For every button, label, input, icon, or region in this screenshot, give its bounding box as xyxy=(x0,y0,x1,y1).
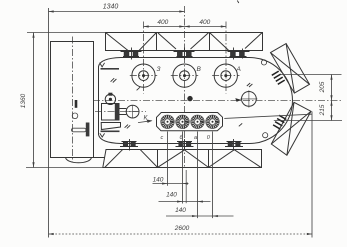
svg-text:А: А xyxy=(236,66,241,73)
svg-text:З: З xyxy=(157,66,161,73)
svg-text:1360: 1360 xyxy=(20,93,27,108)
svg-text:1340: 1340 xyxy=(103,4,119,11)
svg-text:2600: 2600 xyxy=(174,225,190,232)
svg-text:а: а xyxy=(194,135,197,141)
svg-text:400: 400 xyxy=(157,19,168,26)
svg-text:с: с xyxy=(161,135,164,141)
svg-text:215: 215 xyxy=(319,104,326,116)
svg-text:140: 140 xyxy=(166,191,177,198)
svg-text:400: 400 xyxy=(199,19,210,26)
svg-text:В: В xyxy=(197,66,202,73)
svg-text:140: 140 xyxy=(175,207,186,214)
svg-text:205: 205 xyxy=(319,81,326,93)
svg-text:140: 140 xyxy=(153,176,164,183)
